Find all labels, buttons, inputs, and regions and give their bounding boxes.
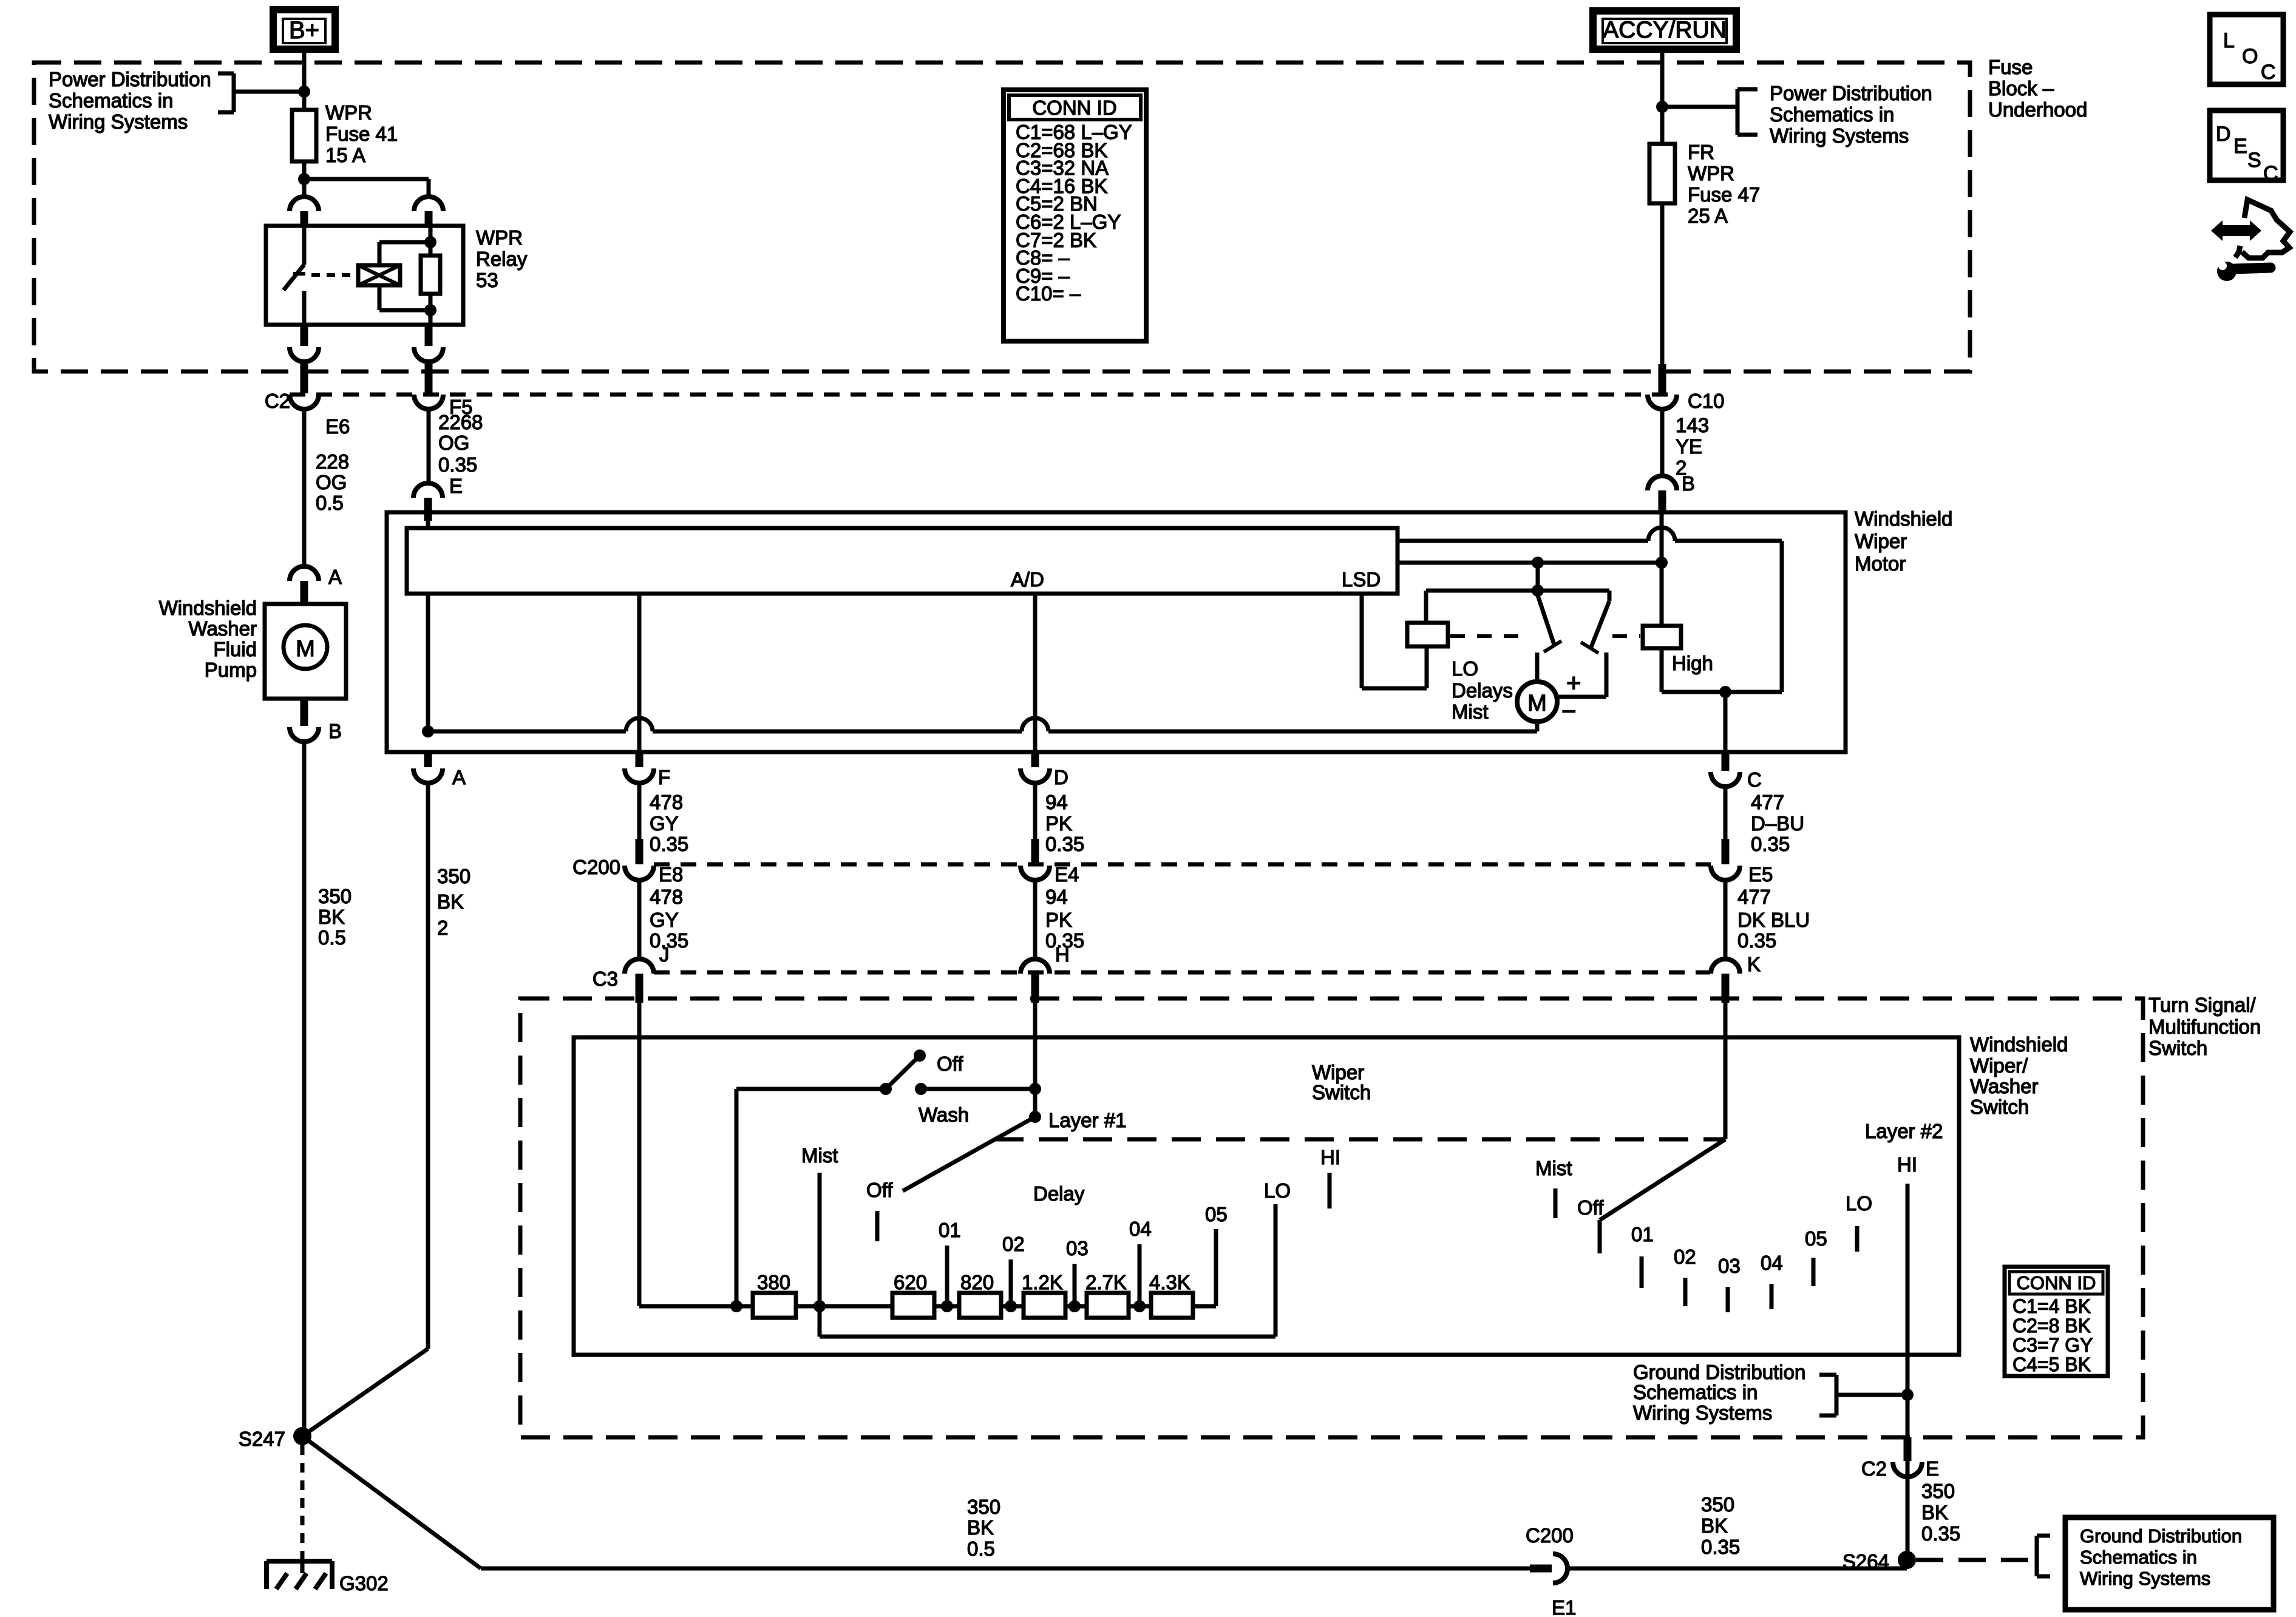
junction node tap 03 — [1068, 1300, 1081, 1312]
S264 dashed link — [1916, 1558, 2034, 1562]
connector pin F motor — [636, 753, 644, 767]
svg-text:C200: C200 — [1526, 1524, 1574, 1547]
svg-text:C10: C10 — [1688, 390, 1725, 412]
svg-text:02: 02 — [1002, 1233, 1025, 1255]
mist stub layer2 — [1554, 1188, 1558, 1218]
wire E8 to C3 — [637, 880, 642, 959]
svg-text:Wiper: Wiper — [1855, 530, 1907, 552]
svg-text:CONN ID: CONN ID — [1032, 97, 1116, 119]
connector E5 — [1722, 839, 1730, 864]
svg-text:DK BLU: DK BLU — [1737, 909, 1810, 931]
resistor 620 — [892, 1293, 934, 1318]
tap stub 01 — [945, 1246, 949, 1306]
park contact left stub — [1535, 653, 1540, 681]
svg-text:Power Distribution: Power Distribution — [1770, 82, 1932, 104]
svg-text:BK: BK — [318, 906, 345, 928]
svg-text:Layer #2: Layer #2 — [1865, 1120, 1943, 1142]
svg-text:Motor: Motor — [1855, 552, 1906, 575]
svg-text:Ground Distribution: Ground Distribution — [2080, 1525, 2242, 1547]
connector pin E motor — [413, 483, 443, 498]
svg-text:143: 143 — [1676, 414, 1709, 436]
park switch bridge — [1536, 563, 1540, 591]
stub 03 layer2 — [1726, 1287, 1730, 1312]
svg-text:477: 477 — [1751, 791, 1784, 813]
svg-text:C: C — [2261, 61, 2276, 84]
pole contact node — [880, 1083, 892, 1095]
svg-text:04: 04 — [1761, 1252, 1783, 1274]
relay mechanical link dashes — [311, 273, 359, 277]
svg-text:Fuse 41: Fuse 41 — [325, 123, 398, 145]
svg-text:Ground Distribution: Ground Distribution — [1633, 1361, 1805, 1383]
wire K into switch — [1724, 1003, 1728, 1139]
svg-text:FR: FR — [1688, 141, 1714, 163]
svg-text:Schematics in: Schematics in — [1770, 103, 1894, 126]
svg-text:Layer #1: Layer #1 — [1048, 1109, 1126, 1131]
svg-text:High: High — [1672, 652, 1713, 674]
off stub layer2 — [1598, 1220, 1602, 1253]
junction node tap 04 — [1133, 1300, 1146, 1312]
connector C3 J — [625, 959, 654, 974]
svg-text:M: M — [296, 636, 315, 662]
DESC reference box — [2210, 110, 2283, 180]
svg-text:Wiring Systems: Wiring Systems — [49, 110, 188, 133]
wire F to C200 — [637, 783, 642, 839]
resistor 4.3K — [1151, 1293, 1193, 1318]
svg-text:GY: GY — [650, 909, 679, 931]
LO stub layer2 — [1855, 1226, 1860, 1252]
svg-text:94: 94 — [1045, 886, 1068, 908]
junction node below fuse 41 — [298, 173, 310, 185]
splice S247 — [293, 1427, 311, 1445]
bottom ground run wire — [481, 1567, 1531, 1571]
svg-text:YE: YE — [1676, 435, 1702, 458]
svg-text:−: − — [1561, 697, 1577, 725]
windshield wiper motor box — [387, 512, 1846, 752]
junction node relay coil top — [424, 236, 436, 248]
wire E6 to pump — [302, 409, 307, 566]
svg-text:C10= –: C10= – — [1016, 282, 1081, 305]
svg-text:Delay: Delay — [1033, 1182, 1085, 1205]
svg-text:O: O — [2242, 45, 2258, 68]
svg-text:WPR: WPR — [325, 101, 372, 124]
wire A leg diagonal to S247 — [302, 1349, 428, 1436]
svg-text:ACCY/RUN: ACCY/RUN — [1603, 17, 1727, 43]
svg-text:Power Distribution: Power Distribution — [49, 68, 211, 90]
svg-text:Fluid: Fluid — [213, 638, 257, 660]
svg-text:CONN ID: CONN ID — [2017, 1272, 2096, 1293]
wash wire to H leg — [921, 1087, 1035, 1091]
svg-text:M: M — [1527, 691, 1547, 716]
wash contact node — [915, 1083, 927, 1095]
svg-text:350: 350 — [318, 885, 352, 907]
svg-text:03: 03 — [1066, 1237, 1089, 1259]
tap stub 05 — [1214, 1229, 1218, 1306]
svg-text:E: E — [1926, 1457, 1939, 1480]
wire E4 to H — [1033, 880, 1038, 959]
svg-text:B: B — [328, 720, 342, 742]
svg-text:BK: BK — [1701, 1514, 1728, 1537]
svg-text:01: 01 — [939, 1219, 961, 1241]
svg-text:C3: C3 — [593, 968, 618, 990]
relay switch fixed contact upper — [302, 226, 307, 265]
armature line A to high winding — [1398, 539, 1648, 543]
svg-text:478: 478 — [650, 791, 683, 813]
connector C2 E bottom — [1904, 1437, 1912, 1461]
ground dashed wire S247 to G302 — [301, 1445, 305, 1559]
svg-text:03: 03 — [1718, 1255, 1741, 1277]
wire F5 to motor E — [427, 409, 431, 483]
svg-text:04: 04 — [1129, 1218, 1152, 1240]
svg-text:PK: PK — [1045, 909, 1072, 931]
relay switch arm — [284, 265, 304, 290]
svg-text:01: 01 — [1631, 1223, 1654, 1246]
LOC reference box — [2210, 15, 2283, 84]
svg-text:Washer: Washer — [189, 617, 257, 640]
svg-text:E4: E4 — [1055, 863, 1079, 886]
mist LO lower wire — [820, 1335, 1275, 1339]
svg-text:HI: HI — [1897, 1153, 1917, 1176]
stub 01 layer2 — [1640, 1256, 1644, 1288]
svg-text:0.35: 0.35 — [1701, 1536, 1740, 1558]
junction node line B coil — [1656, 557, 1668, 569]
connector pin 30 relay left — [290, 197, 319, 211]
motor control bar A/D LSD — [426, 521, 430, 529]
connector E4 — [1031, 839, 1039, 864]
terminal ACCY/RUN — [1589, 7, 1740, 53]
relay coil loop wires — [378, 242, 382, 265]
bottom run wire right — [1569, 1567, 1907, 1571]
svg-text:OG: OG — [316, 471, 347, 493]
fuse F47 FR WPR 25A — [1649, 144, 1675, 203]
svg-text:E: E — [449, 475, 463, 497]
svg-text:BK: BK — [1921, 1501, 1948, 1524]
layer2 selector arm — [1600, 1139, 1725, 1220]
junction node high winding — [1719, 686, 1731, 698]
power distribution bracket left — [232, 73, 236, 112]
junction node mist chain — [813, 1300, 826, 1312]
mist contact wire — [818, 1173, 822, 1337]
wire C10 to motor B — [1660, 409, 1665, 476]
svg-text:Pump: Pump — [205, 659, 257, 681]
junction node HI bracket — [1901, 1389, 1914, 1401]
svg-text:C: C — [2263, 162, 2278, 185]
connector H — [1021, 959, 1050, 974]
connector pin 86 relay right — [414, 197, 443, 211]
connector pin 85 relay right bottom — [425, 325, 433, 346]
svg-text:0.35: 0.35 — [650, 833, 688, 855]
svg-text:350: 350 — [1921, 1480, 1955, 1502]
wire S247 diagonal to bottom run — [302, 1436, 481, 1568]
svg-text:Underhood: Underhood — [1988, 98, 2087, 121]
junction node line B park — [1532, 557, 1544, 569]
power distribution bracket right — [1662, 105, 1737, 109]
svg-text:0.35: 0.35 — [1737, 929, 1776, 952]
svg-text:0.5: 0.5 — [967, 1537, 995, 1560]
service icon vehicle outline — [2242, 200, 2290, 258]
CONN ID table lower — [2005, 1267, 2108, 1376]
svg-text:LO: LO — [1264, 1179, 1291, 1202]
wire D leg inside — [1033, 594, 1038, 752]
svg-text:Block –: Block – — [1988, 77, 2054, 100]
high speed relay coil — [1643, 626, 1681, 648]
svg-text:Wiring Systems: Wiring Systems — [1633, 1402, 1772, 1424]
svg-text:1.2K: 1.2K — [1022, 1271, 1063, 1293]
wire J into switch — [637, 1003, 642, 1306]
relay switch fixed contact lower — [302, 291, 307, 325]
fuse F41 WPR 15A — [292, 110, 316, 161]
svg-text:Off: Off — [866, 1179, 893, 1201]
svg-text:05: 05 — [1205, 1203, 1228, 1225]
junction node H wash — [1029, 1083, 1041, 1095]
splice S264 — [1898, 1551, 1916, 1569]
stub 05 layer2 — [1812, 1258, 1816, 1286]
svg-text:G302: G302 — [339, 1572, 389, 1595]
svg-text:0.35: 0.35 — [1045, 833, 1084, 855]
wire pump to S247 — [302, 742, 307, 1434]
svg-text:Off: Off — [1577, 1196, 1604, 1219]
connector pin A pump — [290, 566, 319, 581]
junction node tap 01 — [941, 1300, 953, 1312]
armature line B — [1398, 561, 1662, 565]
svg-text:Mist: Mist — [801, 1144, 838, 1167]
tap stub 03 — [1073, 1264, 1077, 1306]
washer pump box — [265, 604, 346, 699]
park switch right arm — [1591, 601, 1609, 647]
delay relay coil — [1407, 623, 1448, 646]
svg-text:478: 478 — [650, 886, 683, 908]
svg-text:E6: E6 — [325, 415, 350, 438]
layer1 pivot node — [1029, 1111, 1041, 1123]
svg-text:C4=5 BK: C4=5 BK — [2012, 1354, 2091, 1375]
svg-text:Mist: Mist — [1452, 700, 1489, 723]
wire fuse 47 down — [1660, 203, 1665, 364]
svg-text:25 A: 25 A — [1688, 205, 1728, 227]
park switch left arm — [1537, 594, 1554, 645]
svg-text:L: L — [2223, 29, 2235, 52]
HI contact stub — [1328, 1173, 1332, 1209]
svg-text:350: 350 — [437, 865, 470, 887]
junction node A leg run — [422, 725, 434, 737]
svg-text:E5: E5 — [1748, 863, 1773, 886]
svg-text:GY: GY — [650, 812, 679, 835]
svg-text:C200: C200 — [572, 856, 620, 878]
svg-text:A: A — [328, 566, 342, 588]
svg-text:C2=8 BK: C2=8 BK — [2012, 1315, 2091, 1337]
connector pin 87 relay left bottom — [301, 325, 308, 346]
svg-text:15 A: 15 A — [325, 144, 365, 166]
svg-text:0.5: 0.5 — [318, 926, 346, 949]
svg-text:S247: S247 — [239, 1428, 285, 1450]
off contact node — [914, 1049, 926, 1062]
relay K53 WPR box — [266, 226, 463, 325]
tap stub 04 — [1138, 1244, 1142, 1306]
svg-text:A/D: A/D — [1011, 568, 1044, 591]
svg-text:C3=7 GY: C3=7 GY — [2012, 1334, 2093, 1356]
svg-text:Wiper: Wiper — [1312, 1061, 1364, 1083]
svg-text:K: K — [1747, 953, 1761, 975]
svg-text:Off: Off — [937, 1053, 963, 1075]
terminal B+ — [270, 6, 339, 53]
connector K — [1711, 959, 1740, 974]
svg-text:+: + — [1566, 668, 1581, 697]
svg-text:Delays: Delays — [1452, 679, 1513, 702]
wire F leg inside — [637, 594, 642, 752]
layer1 selector arm — [903, 1117, 1035, 1191]
CONN ID table upper — [1004, 90, 1146, 341]
wire motor B feed inside — [1660, 514, 1664, 563]
svg-text:BK: BK — [437, 890, 464, 913]
svg-text:E: E — [2233, 135, 2247, 158]
svg-text:PK: PK — [1045, 812, 1072, 835]
svg-text:LSD: LSD — [1342, 568, 1381, 591]
relay coil box with X — [358, 265, 400, 285]
relay internal resistor — [429, 226, 433, 256]
inline connector line C2 dotted — [290, 393, 1677, 397]
wire E5 to K — [1724, 880, 1728, 959]
svg-text:E8: E8 — [659, 863, 683, 886]
connector C200 E8 — [636, 839, 644, 864]
inline connector line C200 dotted — [654, 863, 1711, 867]
connector pin A motor — [424, 753, 432, 767]
svg-text:Windshield: Windshield — [159, 597, 257, 619]
svg-text:J: J — [659, 943, 670, 966]
svg-text:228: 228 — [316, 450, 349, 473]
svg-text:Fuse 47: Fuse 47 — [1688, 183, 1760, 206]
svg-text:C2: C2 — [265, 390, 290, 412]
svg-text:477: 477 — [1737, 886, 1771, 908]
junction node tap 02 — [1005, 1300, 1017, 1312]
svg-text:4.3K: 4.3K — [1149, 1271, 1190, 1293]
svg-text:BK: BK — [967, 1516, 994, 1539]
svg-text:HI: HI — [1320, 1146, 1340, 1168]
junction node relay coil bottom — [424, 304, 436, 316]
svg-text:B: B — [1682, 472, 1695, 495]
svg-text:94: 94 — [1045, 791, 1068, 813]
svg-text:Mist: Mist — [1535, 1157, 1572, 1179]
junction node on B+ feed — [298, 86, 310, 98]
svg-text:Wash: Wash — [919, 1103, 969, 1126]
svg-text:Windshield: Windshield — [1970, 1033, 2068, 1056]
resistor 1.2K — [1024, 1293, 1065, 1318]
service icon arrow — [2211, 220, 2261, 241]
svg-text:0.35: 0.35 — [438, 453, 477, 476]
connector pin B pump — [301, 699, 308, 726]
wire C to E5 — [1724, 787, 1728, 839]
svg-text:380: 380 — [757, 1271, 790, 1293]
connector C2 E6 — [301, 364, 308, 393]
service icon wrench — [2217, 262, 2237, 281]
wash off pole wire — [736, 1087, 886, 1091]
motor common run wire — [428, 730, 626, 734]
svg-text:S: S — [2247, 149, 2261, 172]
wire to relay switch leg — [302, 179, 307, 197]
ground G302 — [267, 1559, 332, 1564]
svg-text:C2: C2 — [1861, 1457, 1887, 1480]
svg-text:LO: LO — [1846, 1192, 1872, 1215]
junction node pole chain — [730, 1300, 742, 1312]
wire bar to A leg — [426, 594, 430, 731]
svg-text:Wiper/: Wiper/ — [1970, 1054, 2028, 1077]
resistor 2.7K — [1087, 1293, 1129, 1318]
wire H into switch — [1033, 1003, 1038, 1117]
svg-text:H: H — [1055, 943, 1070, 966]
svg-text:LO: LO — [1452, 657, 1478, 680]
connector C200 E1 bottom — [1530, 1565, 1552, 1573]
svg-text:Schematics in: Schematics in — [2080, 1547, 2197, 1568]
wire fuse 41 to junction — [302, 161, 307, 179]
svg-text:C1=4 BK: C1=4 BK — [2012, 1295, 2091, 1317]
svg-text:WPR: WPR — [476, 226, 523, 249]
wire ACCY/RUN to fuse 47 — [1660, 53, 1665, 144]
svg-text:02: 02 — [1674, 1246, 1696, 1268]
HI wire layer2 — [1906, 1184, 1910, 1568]
windshield wiper washer switch box — [574, 1037, 1959, 1355]
connector pin C motor — [1722, 753, 1730, 771]
svg-text:2268: 2268 — [438, 411, 483, 433]
park contact right stub — [1605, 653, 1609, 697]
svg-text:620: 620 — [894, 1271, 927, 1293]
svg-text:0.5: 0.5 — [316, 492, 344, 514]
ground distribution box lower right — [2065, 1517, 2274, 1610]
svg-text:05: 05 — [1805, 1227, 1827, 1250]
tap stub 02 — [1009, 1259, 1013, 1306]
inline connector line C3 dotted — [654, 971, 1710, 975]
svg-text:Windshield: Windshield — [1855, 507, 1952, 530]
svg-text:820: 820 — [960, 1271, 994, 1293]
fuse block underhood dashed box — [34, 63, 1970, 371]
connector pin D motor — [1031, 753, 1039, 767]
svg-text:2: 2 — [437, 917, 448, 939]
wire D to C200 — [1033, 783, 1038, 839]
svg-text:D–BU: D–BU — [1751, 812, 1804, 835]
LSD wire to delay coil — [1360, 594, 1364, 688]
turn signal multifunction switch dashed box — [520, 998, 2143, 1437]
off contact stub layer1 — [875, 1211, 880, 1241]
svg-text:C: C — [1747, 768, 1762, 791]
svg-text:D: D — [2216, 123, 2231, 146]
svg-text:Switch: Switch — [1312, 1081, 1371, 1103]
svg-text:0.35: 0.35 — [1751, 833, 1790, 855]
resistor 380 — [753, 1293, 796, 1318]
svg-text:0.35: 0.35 — [1921, 1522, 1960, 1545]
svg-text:WPR: WPR — [1688, 162, 1734, 185]
svg-text:B+: B+ — [289, 17, 319, 44]
svg-text:2.7K: 2.7K — [1085, 1271, 1127, 1293]
svg-text:Switch: Switch — [2148, 1037, 2207, 1059]
layer separator dashed line — [994, 1137, 1724, 1142]
delay resistor chain wire — [639, 1304, 1216, 1309]
junction node ACCY feed — [1656, 101, 1668, 113]
washer pump motor circle — [284, 625, 327, 669]
svg-text:D: D — [1054, 766, 1068, 788]
svg-text:350: 350 — [1701, 1493, 1734, 1516]
wire high winding to C — [1724, 692, 1728, 752]
connector C10 — [1659, 364, 1666, 393]
park switch link dashes — [1450, 634, 1527, 638]
LO contact wire — [1274, 1204, 1278, 1337]
svg-text:Wiring Systems: Wiring Systems — [1770, 124, 1909, 147]
ground distribution bracket upper — [1819, 1373, 1836, 1377]
wire A leg down — [426, 783, 430, 1349]
svg-text:Multifunction: Multifunction — [2148, 1015, 2261, 1038]
svg-text:E1: E1 — [1552, 1596, 1576, 1617]
svg-text:Washer: Washer — [1970, 1075, 2038, 1097]
svg-text:Schematics in: Schematics in — [1633, 1381, 1758, 1403]
resistor 820 — [959, 1293, 1001, 1318]
svg-text:A: A — [452, 766, 466, 788]
svg-text:Relay: Relay — [476, 248, 528, 270]
svg-text:350: 350 — [967, 1496, 1000, 1518]
